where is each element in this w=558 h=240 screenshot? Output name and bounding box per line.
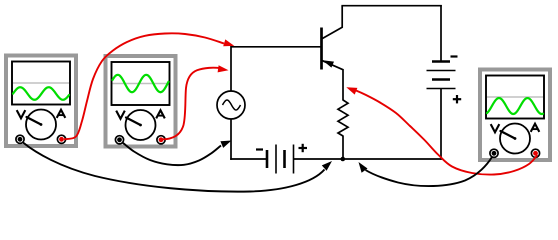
battery V2 (collector power supply) bbox=[427, 62, 456, 89]
wire: right branch top (top rail down to battery V2) bbox=[440, 5, 442, 62]
battery V1 (base bias battery) bbox=[267, 145, 294, 174]
transistor Q1 collector lead bbox=[322, 6, 343, 39]
test lead: M2 red probe to AC source top wire bbox=[163, 68, 221, 140]
test lead: M3 red probe to emitter wire bbox=[356, 91, 538, 175]
label: V1 plus sign bbox=[299, 144, 308, 152]
multimeter M3 (right, output signal) bbox=[480, 70, 550, 161]
transistor Q1 emitter arrow (points toward base: PNP) bbox=[323, 60, 334, 67]
transistor Q1 (PNP) base bar bbox=[320, 28, 323, 70]
wire: right branch bottom (battery V2 to bottom rail) bbox=[440, 89, 442, 160]
multimeter M2 (middle, source signal) bbox=[106, 56, 176, 147]
label: V1 minus sign bbox=[256, 148, 263, 150]
wire: left branch, corner to AC source top bbox=[230, 46, 232, 92]
resistor R1 (emitter resistor) bbox=[338, 100, 348, 136]
label: V2 minus sign bbox=[451, 55, 458, 57]
wire: resistor bottom to rail junction bbox=[342, 136, 344, 160]
wire: AC source bottom to bottom rail bbox=[230, 119, 232, 160]
AC signal source Vsignal bbox=[217, 91, 245, 119]
wire: top rail (collector to battery V2) bbox=[341, 5, 441, 7]
wire: bottom rail left segment to battery V1 bbox=[230, 158, 267, 160]
label: V2 plus sign bbox=[453, 95, 461, 103]
test lead: M1 black probe to bottom rail at junction bbox=[23, 143, 325, 192]
wire: base wire from source branch to transistor base bbox=[231, 46, 322, 48]
transistor Q1 emitter lead bbox=[322, 60, 344, 100]
test lead: M1 red probe to base wire corner bbox=[64, 33, 224, 139]
wire: bottom rail right segment (battery V1 to right branch) bbox=[294, 158, 442, 160]
multimeter M1 (left, base signal) bbox=[6, 56, 76, 147]
test lead: M3 black probe to bottom rail right of junction bbox=[366, 157, 493, 186]
test lead: M2 black probe to source branch bottom bbox=[123, 143, 222, 166]
node: emitter/rail junction dot bbox=[341, 157, 346, 162]
